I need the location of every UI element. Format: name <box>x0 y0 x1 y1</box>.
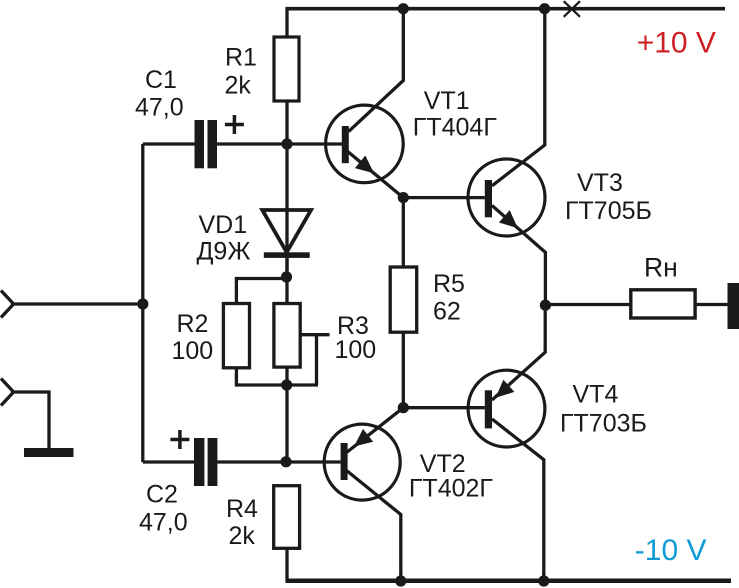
svg-text:100: 100 <box>335 336 377 364</box>
wire R2 top connector <box>236 279 287 304</box>
wire VD1 cathode stub <box>285 258 288 304</box>
wire C2 left <box>143 460 194 463</box>
node top rail junction 2 <box>539 3 550 14</box>
svg-text:ГТ703Б: ГТ703Б <box>560 410 647 438</box>
svg-text:VT1: VT1 <box>424 87 470 115</box>
wire R2 bottom connector <box>236 368 318 385</box>
wire VT1 collector <box>349 9 404 132</box>
resistor R1 <box>274 37 299 101</box>
resistor R5 <box>390 267 417 332</box>
svg-text:R2: R2 <box>177 310 209 338</box>
resistor R2 <box>223 304 249 368</box>
resistor Rn <box>631 290 695 318</box>
svg-text:R5: R5 <box>433 270 465 298</box>
wire input 2 to ground <box>14 392 49 448</box>
node VD1-R2-R3 junction <box>281 271 292 282</box>
wire bottom rail -10V <box>286 579 732 584</box>
svg-text:VT4: VT4 <box>573 381 619 409</box>
wire Rn right <box>695 303 727 306</box>
wire R3 trimmer tap <box>300 333 329 336</box>
node bottom rail junction 2 <box>538 575 549 586</box>
input terminal 1 <box>1 291 14 318</box>
svg-text:ГТ404Г: ГТ404Г <box>413 114 498 142</box>
svg-text:2k: 2k <box>229 522 256 550</box>
wire VT4 emitter <box>492 305 545 400</box>
svg-text:Rн: Rн <box>644 253 678 283</box>
svg-text:VT3: VT3 <box>577 169 623 197</box>
node output junction <box>540 300 551 311</box>
node R2-R3 bottom junction <box>281 379 292 390</box>
wire VT1 emitter <box>348 152 404 198</box>
node input junction <box>137 298 148 309</box>
svg-text:R1: R1 <box>225 44 257 72</box>
svg-text:C1: C1 <box>145 66 177 94</box>
capacitor C2 <box>194 438 217 486</box>
svg-text:ГТ705Б: ГТ705Б <box>565 197 652 225</box>
svg-text:100: 100 <box>172 337 214 365</box>
wire VT3 base <box>403 196 485 199</box>
C1 plus sign <box>225 115 244 134</box>
svg-text:C2: C2 <box>146 481 178 509</box>
wire left vertical input bus <box>141 144 144 462</box>
VT2 emitter arrow <box>354 429 373 447</box>
transistor VT3 <box>468 159 545 236</box>
svg-text:-10 V: -10 V <box>635 534 707 567</box>
wire R5 top stub <box>402 198 405 267</box>
svg-text:2k: 2k <box>225 72 252 100</box>
svg-text:R4: R4 <box>226 495 258 523</box>
wire top rail +10V <box>286 7 726 11</box>
wire VT3 collector <box>492 9 545 186</box>
wire output to Rn <box>545 303 630 306</box>
transistor VT1 <box>326 105 404 183</box>
node VT1 emitter junction <box>398 192 409 203</box>
C2 plus sign <box>170 430 189 449</box>
svg-text:ГТ402Г: ГТ402Г <box>409 474 494 502</box>
svg-text:47,0: 47,0 <box>135 94 184 122</box>
wire VT3 emitter <box>492 206 545 306</box>
wire C1 left <box>143 142 195 145</box>
wire VT2 emitter <box>347 408 404 453</box>
svg-text:62: 62 <box>433 298 461 326</box>
node C1-R1-VD1 junction <box>281 138 292 149</box>
wire R4 bottom to rail <box>285 548 288 581</box>
wire VT4 collector <box>492 419 544 581</box>
node C2-R4-VT2 junction <box>280 456 291 467</box>
capacitor C1 <box>195 120 218 168</box>
wire C1 right to VT1 base <box>217 142 342 145</box>
VT1 emitter arrow <box>355 156 374 174</box>
supply X mark <box>564 1 580 17</box>
svg-text:VD1: VD1 <box>199 211 248 239</box>
node bottom rail junction 1 <box>395 575 406 586</box>
wire VT4 base <box>403 406 485 409</box>
wire VT2 collector <box>347 471 401 582</box>
wire R3 bottom stub <box>285 367 288 462</box>
wire C2 right to VT2 base <box>217 460 340 463</box>
transistor VT2 <box>324 424 400 500</box>
svg-text:+10 V: +10 V <box>637 27 716 60</box>
output terminal bar <box>728 283 739 329</box>
transistor VT4 <box>468 370 545 447</box>
wire R1 top stub <box>285 9 288 37</box>
resistor R4 <box>274 486 300 549</box>
ground <box>24 448 74 457</box>
wire R1 bottom to diode <box>285 101 288 277</box>
svg-text:47,0: 47,0 <box>139 509 188 537</box>
input terminal 2 <box>1 379 14 406</box>
resistor R3 <box>274 304 300 368</box>
diode VD1 <box>262 210 311 252</box>
VT4 emitter arrow <box>496 380 515 398</box>
wire input 1 <box>14 302 143 305</box>
node R5-VT2-VT4 junction <box>398 402 409 413</box>
svg-text:Д9Ж: Д9Ж <box>197 238 251 266</box>
VT3 emitter arrow <box>499 210 518 228</box>
wire R5 bottom stub <box>402 332 405 408</box>
node top rail junction 1 <box>398 3 409 14</box>
